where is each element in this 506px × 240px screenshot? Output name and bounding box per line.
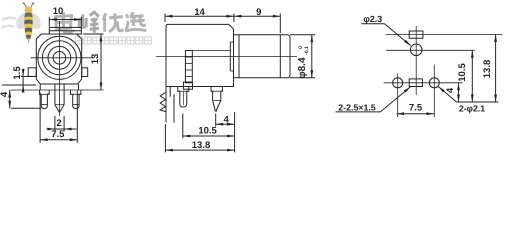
svg-text:7.5: 7.5: [51, 129, 65, 140]
watermark faint swirl: [2, 18, 16, 28]
side view dimension 13.8: [165, 112, 234, 152]
side view contact strip: [183, 51, 192, 90]
svg-text:10.5: 10.5: [457, 63, 468, 82]
watermark bee logo: [14, 2, 44, 43]
svg-text:13.8: 13.8: [192, 140, 211, 151]
watermark large text dianfengyouxuan: [55, 12, 146, 33]
side view pins: [178, 87, 223, 112]
front view concentric circles: [38, 36, 81, 79]
side view dimension 9: [234, 7, 280, 33]
footprint circle row line: [386, 49, 475, 51]
svg-text:13: 13: [90, 54, 101, 65]
svg-text:10: 10: [53, 6, 64, 17]
svg-text:4: 4: [445, 87, 456, 93]
watermark small text row: [76, 37, 152, 44]
side view barrel: [234, 35, 291, 78]
svg-text:2: 2: [56, 118, 61, 129]
side view dimension 4: [216, 114, 235, 127]
front view dimension 2: [47, 116, 77, 132]
footprint bottom square pad: [409, 79, 422, 87]
svg-text:14: 14: [194, 7, 205, 18]
front view base strip: [11, 84, 104, 90]
side view dimension 14: [165, 7, 234, 22]
footprint label phi2.3: [362, 14, 411, 46]
svg-text:13.8: 13.8: [482, 60, 493, 79]
footprint dimension 7.5: [397, 103, 434, 116]
footprint pad column centerline: [415, 26, 417, 95]
front view dimension 10: [49, 6, 81, 26]
footprint dimension 4: [445, 83, 460, 102]
front view body outline: [36, 34, 81, 84]
footprint bottom-left circle pad: [393, 73, 403, 117]
front view dimension 13: [83, 34, 104, 90]
front view pins: [40, 84, 81, 112]
svg-text:4: 4: [0, 91, 10, 97]
svg-text:-0.1: -0.1: [304, 46, 310, 55]
svg-text:2-φ2.1: 2-φ2.1: [459, 104, 485, 114]
svg-text:4: 4: [224, 114, 230, 125]
side view dimension 10.5: [183, 114, 235, 139]
footprint dimension 10.5: [457, 50, 474, 102]
svg-text:10.5: 10.5: [198, 125, 217, 136]
side view body outline: [166, 24, 234, 86]
footprint top circle pad: [410, 44, 422, 56]
footprint label 2-phi2.1: [438, 86, 498, 113]
footprint bottom-right circle pad: [429, 65, 439, 117]
svg-text:1.5: 1.5: [12, 66, 23, 80]
svg-text:9: 9: [256, 7, 261, 18]
front view top tab: [49, 27, 81, 34]
footprint dimension 13.8: [482, 35, 497, 103]
front view mounting ears: [28, 68, 87, 77]
front view dimension 1.5: [2, 66, 36, 93]
footprint top reference line: [386, 34, 503, 36]
front view dimension 7.5: [40, 91, 77, 143]
side view dimension phi8.4: [290, 35, 315, 79]
svg-text:φ2.3: φ2.3: [363, 14, 382, 24]
svg-text:φ8.4: φ8.4: [297, 57, 308, 78]
footprint bottom row line: [384, 82, 463, 84]
front view center lines: [31, 21, 95, 116]
footprint label 2-2.5x1.5: [336, 87, 411, 113]
side view internal line: [192, 50, 230, 52]
front view dimension 4: [0, 90, 41, 108]
svg-text:7.5: 7.5: [409, 103, 423, 114]
svg-text:2-2.5×1.5: 2-2.5×1.5: [338, 103, 376, 113]
side view centerline: [156, 55, 297, 57]
footprint top square pad: [409, 31, 423, 38]
side view solder lug: [160, 87, 174, 123]
